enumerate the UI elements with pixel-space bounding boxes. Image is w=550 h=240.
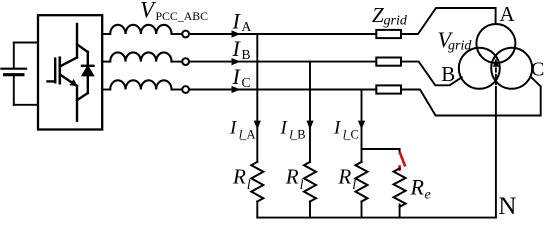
switch S1 red blade	[400, 153, 405, 165]
resistor R_l B	[304, 162, 316, 202]
svg-text:Z: Z	[372, 3, 384, 27]
wire inverter to L_C	[102, 89, 110, 91]
load arrow I_l_A	[254, 121, 261, 130]
impedance Z_grid A box	[376, 30, 401, 38]
svg-text:B: B	[441, 62, 455, 86]
wire L_C to PCC terminal C	[172, 89, 183, 91]
grid source V_grid circle bottom-right	[491, 48, 532, 89]
label Z_grid	[372, 3, 408, 29]
IGBT Q1 gate bar	[54, 59, 56, 83]
label I_B	[232, 36, 251, 62]
wire L_B to PCC terminal B	[172, 61, 183, 63]
grid source V_grid circle bottom-left	[459, 48, 500, 89]
current arrow I_A	[232, 30, 241, 37]
wire R_l C to bus	[361, 202, 363, 218]
svg-text:B: B	[242, 47, 251, 62]
diode D1 cathode bar	[82, 65, 93, 67]
wire Z_grid C to node C	[401, 77, 541, 116]
svg-text:I: I	[229, 118, 238, 139]
svg-text:_C: _C	[343, 128, 359, 142]
switch S1 red contact	[398, 167, 401, 170]
neutral arrowhead	[493, 58, 499, 67]
wire R_e to bus	[399, 204, 401, 217]
IGBT Q1 emitter lead	[76, 86, 78, 121]
resistor R_l C	[356, 162, 368, 202]
svg-text:A: A	[242, 19, 252, 34]
IGBT Q1 collector lead	[76, 24, 78, 58]
label I_C	[232, 64, 251, 90]
label R_l B	[285, 164, 304, 193]
svg-text:R: R	[410, 175, 425, 200]
label R_l C	[337, 164, 356, 193]
tap wire phase C down	[361, 90, 363, 162]
inductor L_A	[110, 25, 171, 34]
diode D1 top diagonal	[77, 44, 88, 52]
wire L_A to PCC terminal A	[172, 33, 183, 35]
current arrow I_C	[232, 86, 241, 93]
wire inverter to L_A	[102, 33, 110, 35]
inverter U1 box	[38, 15, 102, 129]
branch wire to R_e	[362, 149, 400, 153]
label R_e	[410, 175, 431, 203]
load arrow I_l_C	[358, 121, 365, 130]
bottom neutral bus	[257, 217, 496, 219]
svg-text:PCC_ABC: PCC_ABC	[156, 9, 209, 23]
svg-text:I: I	[232, 36, 242, 61]
inductor L_B	[110, 52, 171, 61]
load arrow I_l_B	[306, 121, 313, 130]
wire PCC A to Z_grid A	[189, 33, 376, 35]
svg-text:I: I	[232, 64, 242, 89]
label I_A	[232, 8, 252, 34]
neutral wire to N	[495, 87, 497, 218]
wire Z_grid A to node A	[401, 8, 496, 34]
tap wire phase B down	[309, 62, 311, 162]
wire R_l A to bus	[256, 202, 258, 218]
impedance Z_grid C box	[376, 85, 401, 93]
label I_l_B	[280, 118, 306, 142]
svg-text:l: l	[300, 178, 304, 193]
label V_grid	[438, 27, 473, 53]
svg-text:C: C	[531, 59, 544, 81]
wire PCC C to Z_grid C	[189, 89, 376, 91]
wire PCC B to Z_grid B	[189, 61, 376, 63]
svg-text:_A: _A	[239, 128, 255, 142]
svg-text:l: l	[247, 178, 251, 193]
IGBT Q1 body bar	[58, 58, 61, 83]
resistor R_l A	[251, 162, 263, 202]
svg-text:V: V	[140, 0, 157, 23]
label V_PCC_ABC	[140, 0, 208, 23]
wire inverter to L_B	[102, 61, 110, 63]
wire battery to inverter top	[14, 42, 38, 44]
inductor L_C	[110, 80, 171, 89]
svg-text:_B: _B	[290, 128, 306, 142]
svg-text:I: I	[232, 8, 242, 33]
diode D1 triangle	[83, 67, 93, 76]
impedance Z_grid B box	[376, 58, 401, 66]
wire Z_grid B to node B	[401, 62, 462, 86]
svg-text:e: e	[425, 188, 431, 203]
current arrow I_B	[232, 58, 241, 65]
svg-text:grid: grid	[448, 39, 472, 54]
diode D1 cathode lead	[87, 52, 89, 66]
svg-text:I: I	[333, 118, 342, 139]
svg-text:R: R	[337, 164, 351, 188]
svg-text:A: A	[500, 2, 516, 26]
IGBT Q1 emitter diagonal	[60, 75, 77, 86]
tap wire phase A down	[256, 34, 258, 162]
wire battery to inverter bottom	[14, 104, 38, 106]
PCC terminal C	[182, 86, 189, 93]
PCC terminal A	[182, 31, 189, 38]
diode D1 anode lead	[87, 75, 89, 93]
IGBT Q1 gate lead	[48, 80, 56, 82]
svg-text:R: R	[232, 164, 246, 188]
label R_l A	[232, 164, 251, 193]
IGBT Q1 emitter arrowhead	[70, 79, 78, 86]
svg-text:l: l	[352, 178, 356, 193]
wire R_l B to bus	[309, 202, 311, 218]
svg-text:N: N	[498, 193, 516, 220]
grid source V_grid circle top	[476, 24, 515, 63]
neutral dashed segment	[495, 68, 497, 87]
label I_l_A	[229, 118, 256, 142]
resistor R_e	[394, 168, 406, 206]
diode D1 bottom diagonal	[77, 93, 88, 100]
svg-text:I: I	[280, 118, 289, 139]
PCC terminal B	[182, 58, 189, 65]
svg-text:grid: grid	[384, 13, 408, 28]
label I_l_C	[333, 118, 359, 142]
svg-text:C: C	[242, 75, 251, 90]
IGBT Q1 collector diagonal	[60, 58, 77, 67]
svg-text:R: R	[285, 164, 299, 188]
battery DC source	[1, 43, 26, 105]
